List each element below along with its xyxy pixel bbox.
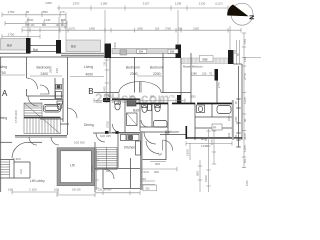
svg-text:150: 150 — [155, 26, 160, 30]
svg-text:90: 90 — [26, 10, 30, 14]
svg-text:2775: 2775 — [218, 82, 221, 88]
svg-text:1775: 1775 — [106, 96, 112, 99]
svg-text:2 100: 2 100 — [29, 188, 37, 192]
svg-text:1450: 1450 — [45, 1, 52, 5]
svg-text:1325: 1325 — [235, 116, 238, 122]
svg-text:Bal: Bal — [33, 48, 38, 52]
svg-text:100 300: 100 300 — [72, 189, 81, 192]
svg-text:Bal: Bal — [71, 45, 76, 49]
svg-text:1000: 1000 — [204, 175, 208, 182]
svg-text:910: 910 — [141, 177, 146, 181]
svg-text:BW: BW — [139, 49, 144, 53]
svg-text:2760: 2760 — [165, 26, 171, 30]
svg-text:150: 150 — [178, 26, 183, 30]
svg-text:2750: 2750 — [8, 10, 15, 14]
svg-text:150: 150 — [103, 61, 106, 66]
svg-text:1325: 1325 — [243, 97, 247, 104]
svg-text:Bal: Bal — [7, 44, 12, 48]
svg-text:150: 150 — [228, 132, 231, 137]
svg-text:350: 350 — [150, 96, 155, 99]
svg-text:ining: ining — [0, 116, 7, 120]
svg-text:Kitchen: Kitchen — [124, 146, 135, 150]
svg-text:2335: 2335 — [228, 115, 231, 121]
svg-text:Lift: Lift — [70, 164, 75, 168]
svg-text:Dining: Dining — [84, 123, 94, 127]
svg-text:5,300: 5,300 — [13, 157, 21, 161]
svg-text:Lift Lobby: Lift Lobby — [30, 179, 45, 183]
svg-text:170: 170 — [59, 10, 64, 14]
svg-text:Bal: Bal — [203, 57, 208, 61]
svg-text:2750: 2750 — [106, 121, 110, 128]
svg-text:2180: 2180 — [191, 72, 197, 76]
svg-text:1485: 1485 — [89, 26, 95, 30]
svg-text:iving: iving — [0, 65, 7, 69]
svg-text:1500: 1500 — [113, 42, 117, 49]
svg-text:UP: UP — [106, 169, 110, 173]
svg-text:910: 910 — [146, 187, 151, 190]
svg-text:N: N — [248, 15, 255, 20]
svg-text:150: 150 — [235, 134, 238, 139]
svg-text:150: 150 — [62, 18, 65, 23]
svg-text:150: 150 — [243, 39, 247, 44]
svg-text:140: 140 — [243, 57, 247, 62]
svg-text:1440: 1440 — [44, 18, 51, 22]
svg-text:2370: 2370 — [73, 1, 80, 5]
svg-text:100 345: 100 345 — [100, 134, 111, 138]
svg-text:700: 700 — [0, 71, 6, 75]
svg-text:2550: 2550 — [41, 10, 48, 14]
svg-text:150: 150 — [55, 68, 59, 73]
svg-text:Bedroom: Bedroom — [150, 66, 164, 70]
svg-text:2130: 2130 — [199, 1, 206, 5]
svg-text:210: 210 — [202, 72, 207, 76]
svg-text:2x0: 2x0 — [19, 169, 23, 174]
svg-text:100: 100 — [54, 188, 59, 192]
svg-text:1305: 1305 — [243, 145, 247, 152]
svg-text:B: B — [88, 87, 93, 96]
svg-text:500: 500 — [155, 162, 160, 166]
svg-text:1500: 1500 — [246, 180, 249, 186]
svg-text:2 010: 2 010 — [141, 170, 149, 174]
svg-text:90: 90 — [243, 118, 247, 122]
svg-text:3825: 3825 — [243, 133, 247, 140]
svg-text:2500: 2500 — [27, 18, 34, 22]
svg-text:1075: 1075 — [69, 26, 75, 30]
svg-text:UP: UP — [158, 153, 162, 157]
svg-text:2400: 2400 — [41, 72, 49, 76]
svg-text:A: A — [2, 89, 8, 98]
svg-text:600: 600 — [196, 171, 200, 176]
svg-text:FR: FR — [213, 127, 217, 130]
svg-text:Bedroom: Bedroom — [126, 66, 140, 70]
svg-text:2770: 2770 — [243, 73, 247, 80]
svg-text:100 300: 100 300 — [74, 141, 85, 145]
svg-text:BW: BW — [170, 49, 175, 53]
svg-text:600: 600 — [244, 158, 247, 163]
svg-text:900: 900 — [154, 170, 159, 174]
svg-text:140: 140 — [205, 136, 208, 141]
svg-text:(L)(7): (L)(7) — [215, 1, 222, 5]
svg-text:1500: 1500 — [186, 149, 190, 156]
svg-text:Master Bedroom: Master Bedroom — [183, 64, 204, 68]
svg-text:2300: 2300 — [130, 72, 138, 76]
svg-text:500: 500 — [42, 24, 47, 27]
svg-text:1735 900: 1735 900 — [14, 110, 18, 123]
svg-text:100: 100 — [8, 188, 13, 192]
svg-text:2750: 2750 — [8, 33, 15, 37]
svg-text:1138: 1138 — [175, 1, 182, 5]
svg-text:Bath: Bath — [133, 109, 140, 113]
svg-text:1775: 1775 — [169, 96, 175, 99]
svg-text:Living: Living — [84, 65, 93, 69]
svg-text:2400: 2400 — [129, 96, 135, 99]
svg-text:2160: 2160 — [193, 26, 199, 30]
svg-text:2200: 2200 — [153, 72, 161, 76]
svg-text:2450: 2450 — [137, 26, 143, 30]
svg-text:2400: 2400 — [103, 86, 106, 92]
svg-text:2450: 2450 — [90, 165, 94, 172]
svg-text:275 100: 275 100 — [25, 24, 35, 27]
svg-text:3157: 3157 — [143, 1, 150, 5]
svg-text:1050: 1050 — [190, 96, 196, 99]
svg-text:1290: 1290 — [201, 144, 208, 148]
svg-text:2180: 2180 — [101, 1, 108, 5]
svg-text:1575: 1575 — [211, 139, 214, 145]
svg-text:100 245 900: 100 245 900 — [98, 188, 112, 191]
svg-text:2500: 2500 — [49, 66, 53, 73]
svg-text:4000: 4000 — [86, 72, 94, 76]
svg-text:Bedroom: Bedroom — [165, 130, 179, 134]
